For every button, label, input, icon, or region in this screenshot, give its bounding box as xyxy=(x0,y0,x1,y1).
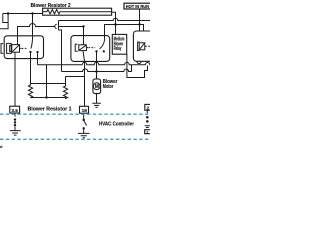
wire K1 right contact jog down xyxy=(37,52,39,65)
wire cup K2b down to motor xyxy=(96,61,98,79)
wire motor rail right segment xyxy=(97,65,132,72)
wire contact to ground xyxy=(83,128,85,133)
node motor junction xyxy=(95,70,97,72)
connector 2 box xyxy=(145,104,152,110)
relay K3 box right edge xyxy=(133,31,154,61)
coil bracket K1 xyxy=(10,45,12,51)
wire motor feed rail with humps xyxy=(62,69,97,72)
dashed link K1 coil to switch xyxy=(22,47,28,49)
node rail A drop junction xyxy=(114,23,116,25)
resistor box Blower Resistor 2 xyxy=(43,8,112,15)
motor box xyxy=(93,79,101,94)
dashed boundary HVAC top xyxy=(0,113,150,115)
wire top bus xyxy=(3,13,43,15)
coil K1 slash xyxy=(12,45,19,52)
switch blade K1 xyxy=(31,39,33,49)
relay K1 box xyxy=(4,36,43,59)
wire switch drop to relay blade xyxy=(32,14,34,40)
pin terminal K1 xyxy=(7,43,12,53)
wire R1 bottom rail xyxy=(31,97,66,99)
relay K2 Medium Blower box xyxy=(71,36,110,62)
wire B hot feed with hump xyxy=(59,18,151,20)
wire motor bottom to ground xyxy=(96,94,98,103)
svg-text:Blower Resistor 1: Blower Resistor 1 xyxy=(28,106,72,112)
wire branch to resistor R1b xyxy=(66,76,85,78)
resistor R1b xyxy=(63,77,67,99)
connector 3.5 box xyxy=(10,106,20,113)
wire 19 to switch xyxy=(83,113,85,120)
node medium coil corner xyxy=(82,25,84,27)
connector C1 male bracket xyxy=(58,21,60,31)
svg-text:Motor: Motor xyxy=(103,84,114,90)
contact K2 left xyxy=(95,50,97,52)
resistor R1a xyxy=(28,85,32,98)
switch blade K2 xyxy=(100,39,105,49)
wire coil K2 stub xyxy=(86,47,88,49)
power box HOT IN RUN xyxy=(124,3,151,9)
svg-text:2: 2 xyxy=(146,130,148,134)
connector bracket K3 xyxy=(138,42,140,51)
switch S1 contact xyxy=(83,127,85,129)
dashed link K3 xyxy=(145,45,150,47)
wire medium coil feed xyxy=(59,27,84,46)
ground G4 xyxy=(145,126,150,128)
wire cup K2a down to connector 19 xyxy=(84,61,86,106)
ground G2 motor xyxy=(92,103,101,107)
dotted wire below 3.5 xyxy=(14,113,16,117)
coil K2 slash xyxy=(79,45,86,50)
wire K3 jumper loop xyxy=(127,54,148,77)
svg-text:Relay: Relay xyxy=(114,46,122,52)
svg-text:HOT IN RUN: HOT IN RUN xyxy=(126,4,149,9)
wire coil net with crossover hump xyxy=(18,24,55,45)
wire under rail continuous xyxy=(38,62,151,64)
pin cup K3 xyxy=(137,61,141,63)
connector 19 box xyxy=(80,106,89,113)
wire resistor box output drop xyxy=(112,12,116,34)
node R1 bottom junction xyxy=(45,96,47,98)
coil K3 slash xyxy=(140,43,145,49)
wire K2 coil bottom to cup xyxy=(83,51,85,62)
motor M1 circle xyxy=(93,83,100,90)
contact K1 left xyxy=(29,51,31,53)
wire K1 coil bottom to connector 3.5 xyxy=(14,52,16,106)
wire bus left stub xyxy=(3,14,8,23)
relay coil K3 xyxy=(139,43,145,50)
relay coil K1 xyxy=(12,45,20,53)
switch S1 blade xyxy=(84,121,87,126)
dashed boundary HVAC bottom xyxy=(0,138,150,140)
contact K2 right xyxy=(103,50,105,52)
contact K1 right xyxy=(36,51,38,53)
wire C motor feed drop xyxy=(59,30,62,72)
switch S1 pivot xyxy=(83,119,85,121)
svg-text:3.5: 3.5 xyxy=(11,108,18,113)
svg-text:M: M xyxy=(95,84,99,90)
connector box lower right xyxy=(145,130,152,134)
node switch drop junction xyxy=(31,12,33,14)
connector C1 female half xyxy=(55,25,57,29)
ground G1 xyxy=(10,127,21,135)
relay coil K2 xyxy=(79,45,87,51)
wire coil K1 stub xyxy=(20,47,22,49)
resistor R2 element xyxy=(43,10,112,14)
dashed link K2 coil to switch xyxy=(88,47,95,49)
node feed junction xyxy=(7,12,9,14)
dotted wire below 2 xyxy=(146,110,148,113)
svg-text:HVAC Controller: HVAC Controller xyxy=(99,121,135,127)
label Medium Blower Relay xyxy=(112,34,126,54)
wire feed exit left xyxy=(0,14,8,29)
wire rail A medium and right blade feed xyxy=(105,25,144,40)
ground G3 xyxy=(78,133,90,137)
wire K2 left contact to cup xyxy=(96,51,98,61)
node hot rail junction xyxy=(138,23,140,25)
wire K1 left contact down to resistor xyxy=(30,52,32,85)
wire HOT drop xyxy=(139,9,141,32)
svg-text:19: 19 xyxy=(82,108,88,113)
wire riser to resistor bottom rail xyxy=(46,65,48,98)
wire R1 top rail xyxy=(31,83,66,85)
connector bracket K1 left xyxy=(1,44,3,54)
svg-text:Blower Resistor 2: Blower Resistor 2 xyxy=(31,3,71,9)
connector bracket K2 xyxy=(75,44,77,51)
